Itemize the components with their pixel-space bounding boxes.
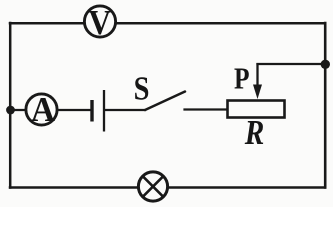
wire battery to switch pivot xyxy=(105,109,145,111)
voltmeter V xyxy=(84,4,115,43)
wire bottom xyxy=(10,186,325,189)
wire wiper to right rail xyxy=(258,63,326,65)
switch S blade xyxy=(145,92,185,111)
wire left xyxy=(9,23,12,188)
junction dot right xyxy=(321,60,330,69)
wire switch to rheostat xyxy=(185,108,229,110)
svg-text:R: R xyxy=(244,113,264,152)
rheostat R body xyxy=(228,101,285,118)
wire right xyxy=(324,23,327,188)
wire top xyxy=(10,22,325,25)
wire middle row: dot to ammeter xyxy=(10,109,27,111)
junction dot left xyxy=(6,106,15,115)
lamp xyxy=(138,172,167,201)
ammeter A xyxy=(26,91,57,129)
svg-text:V: V xyxy=(88,4,111,43)
wiper arrow P xyxy=(253,63,262,99)
wire ammeter to battery xyxy=(56,109,91,111)
svg-text:P: P xyxy=(234,62,250,96)
svg-text:S: S xyxy=(134,69,150,107)
battery cell xyxy=(92,90,104,132)
svg-text:A: A xyxy=(31,91,55,129)
